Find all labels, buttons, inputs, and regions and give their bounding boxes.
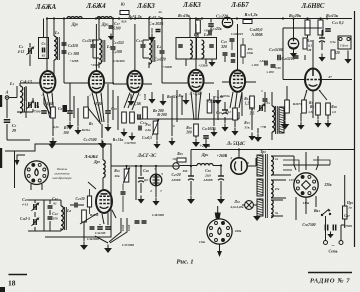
svg-text:Др1: Др1 xyxy=(71,22,79,27)
svg-text:С26120: С26120 xyxy=(154,58,165,62)
svg-text:включения: включения xyxy=(54,172,69,176)
svg-text:К7*1,2к: К7*1,2к xyxy=(147,15,162,20)
tube V1 xyxy=(40,71,55,93)
svg-text:Л26Ж4: Л26Ж4 xyxy=(85,3,106,10)
wire V7 left xyxy=(88,182,96,189)
IF can box L6 xyxy=(197,38,217,60)
svg-text:100к: 100к xyxy=(247,51,254,55)
wire stab drops xyxy=(135,166,137,200)
tube V2 xyxy=(89,71,104,93)
ground V2 xyxy=(101,140,103,144)
transformer T1 core xyxy=(276,106,278,134)
ground lamp xyxy=(256,213,258,217)
resistor R28 xyxy=(326,103,331,115)
svg-text:С461000: С461000 xyxy=(87,237,99,241)
svg-text:Панель: Панель xyxy=(56,167,68,171)
capacitor C49 electro xyxy=(188,175,194,177)
svg-text:Л36К3: Л36К3 xyxy=(136,3,155,10)
svg-text:С50: С50 xyxy=(205,169,211,173)
svg-text:Вк1: Вк1 xyxy=(313,209,320,213)
svg-text:С161000: С161000 xyxy=(113,59,125,63)
terminal mains left xyxy=(324,241,328,245)
tube V8 gas xyxy=(150,174,162,186)
wire V3 top xyxy=(134,24,136,71)
svg-text:А300В: А300В xyxy=(170,178,180,182)
coil L8 xyxy=(61,206,63,230)
coil L1 xyxy=(20,86,23,113)
svg-text:С6310: С6310 xyxy=(68,44,78,48)
page edge artifact left upper xyxy=(0,95,2,107)
wire mains verticals xyxy=(325,216,327,228)
pot R16 xyxy=(153,121,158,134)
svg-text:R1310к: R1310к xyxy=(178,13,191,18)
svg-text:В-200: В-200 xyxy=(156,113,167,117)
svg-text:127в: 127в xyxy=(289,178,296,182)
svg-text:+2,1В: +2,1В xyxy=(207,100,217,104)
svg-text:+7В: +7В xyxy=(260,125,267,129)
wire T1 xyxy=(271,92,273,106)
resistor R1 xyxy=(51,107,56,118)
ground mid d xyxy=(213,129,215,133)
svg-text:С44100: С44100 xyxy=(95,231,106,235)
ground V6a xyxy=(284,121,286,125)
capacitor C34 xyxy=(263,99,268,101)
svg-text:R2: R2 xyxy=(89,122,94,126)
capacitor C1 xyxy=(35,102,37,108)
ground row2 xyxy=(151,96,153,100)
svg-text:Су108: Су108 xyxy=(112,50,122,54)
svg-text:С4720: С4720 xyxy=(172,173,181,177)
ground T1 xyxy=(257,134,259,138)
ground C49 xyxy=(190,196,192,200)
svg-text:220в: 220в xyxy=(324,183,332,187)
svg-text:Тл: Тл xyxy=(266,101,270,105)
choke Dr1 xyxy=(67,17,82,19)
svg-text:Л9 5Ц4С: Л9 5Ц4С xyxy=(226,142,246,147)
svg-text:Л7: Л7 xyxy=(327,75,332,79)
svg-text:8,0: 8,0 xyxy=(144,178,148,182)
svg-text:20к: 20к xyxy=(113,174,119,178)
svg-text:91: 91 xyxy=(53,202,57,206)
wire V2 cathode xyxy=(101,124,103,138)
transformer T2 sec a xyxy=(271,156,273,175)
wire fan V6 xyxy=(304,90,307,100)
wire fan V4 xyxy=(191,92,194,121)
svg-text:С17: С17 xyxy=(114,21,120,26)
resistor R14 xyxy=(250,96,255,108)
resistor R12 xyxy=(233,108,238,120)
svg-text:х 200: х 200 xyxy=(251,63,259,67)
ground V6d xyxy=(327,120,329,124)
svg-text:Др2: Др2 xyxy=(101,22,109,27)
svg-text:Др3: Др3 xyxy=(93,160,101,164)
transformer T2 winding a xyxy=(257,155,263,176)
svg-text:С402-5: С402-5 xyxy=(20,217,30,221)
svg-text:R28: R28 xyxy=(331,105,337,109)
ground R16 xyxy=(156,141,158,145)
svg-text:С117500: С117500 xyxy=(84,138,97,142)
svg-text:L4: L4 xyxy=(156,44,162,49)
wire fan V7 xyxy=(80,213,98,224)
wire selector bottom xyxy=(305,197,307,214)
ground V6c xyxy=(317,120,319,124)
svg-text:Т/фон: Т/фон xyxy=(340,44,349,48)
tube V3 xyxy=(127,71,142,93)
svg-text:С20: С20 xyxy=(22,197,28,202)
svg-text:Л76Ж4: Л76Ж4 xyxy=(83,154,98,159)
capacitor C12 xyxy=(91,45,96,47)
svg-text:300: 300 xyxy=(182,169,188,173)
svg-text:1,5к: 1,5к xyxy=(308,110,314,114)
svg-text:Л16ЖА: Л16ЖА xyxy=(35,4,57,11)
svg-text:Рис. 1: Рис. 1 xyxy=(176,259,193,266)
resistor R4 xyxy=(122,112,127,123)
wire mid vert b xyxy=(112,90,114,120)
svg-text:R25: R25 xyxy=(177,152,183,156)
capacitor in L6 can xyxy=(209,45,214,47)
ground V5 xyxy=(234,128,236,132)
ground L6 xyxy=(211,59,213,63)
wire fan V5 xyxy=(230,92,233,108)
resistor R10b xyxy=(207,100,212,113)
svg-text:К5: К5 xyxy=(120,2,126,7)
capacitor C41 xyxy=(48,206,53,208)
wire tank3-V3 xyxy=(113,83,128,85)
svg-text:18: 18 xyxy=(8,279,16,288)
svg-text:С481000: С481000 xyxy=(152,213,164,217)
svg-text:~: ~ xyxy=(332,244,335,249)
wire socket cross xyxy=(196,210,205,227)
svg-text:+230В: +230В xyxy=(198,64,208,68)
svg-text:1а: 1а xyxy=(348,206,352,210)
wire fuse up xyxy=(344,175,346,199)
svg-text:С23: С23 xyxy=(221,39,227,44)
tube V5 xyxy=(230,70,245,92)
svg-text:0,1: 0,1 xyxy=(308,44,313,48)
svg-text:+240В: +240В xyxy=(200,144,211,148)
svg-text:Др4: Др4 xyxy=(201,152,209,157)
wire tank3 xyxy=(161,19,163,51)
svg-text:С255100: С255100 xyxy=(269,47,283,52)
svg-text:1000: 1000 xyxy=(121,224,125,231)
wire C3 down xyxy=(6,124,8,140)
svg-text:Пр1: Пр1 xyxy=(346,201,354,205)
capacitor row small xyxy=(265,61,267,66)
ground top mid xyxy=(151,34,153,38)
ground mains xyxy=(330,232,332,235)
resistor R22b xyxy=(82,210,87,222)
svg-text:1000: 1000 xyxy=(143,93,147,100)
svg-text:1,2: 1,2 xyxy=(245,102,250,106)
svg-text:+100В: +100В xyxy=(162,65,172,69)
svg-text:С2820,0: С2820,0 xyxy=(250,27,263,32)
svg-text:1,5в: 1,5в xyxy=(259,59,265,63)
svg-text:С220,025: С220,025 xyxy=(231,32,243,36)
trimmer C2 xyxy=(29,102,31,108)
wire V9 right xyxy=(247,165,256,167)
wire V1 plate drop xyxy=(46,19,48,72)
ground V4 xyxy=(195,139,197,143)
wire tank1 xyxy=(63,40,65,58)
svg-text:С18 2025: С18 2025 xyxy=(149,21,164,26)
svg-text:29: 29 xyxy=(11,128,16,133)
svg-text:SМ: SМ xyxy=(307,48,312,52)
svg-text:С220,5: С220,5 xyxy=(142,136,152,140)
ground C50 xyxy=(220,196,222,200)
capacitor C3 xyxy=(4,120,11,123)
outlet symbol xyxy=(173,163,179,169)
svg-text:4-13: 4-13 xyxy=(17,50,25,54)
resistor R8 xyxy=(143,107,148,119)
wire V5 sides xyxy=(222,81,230,83)
svg-text:R1651к: R1651к xyxy=(220,94,230,98)
svg-text:R10: R10 xyxy=(186,126,192,130)
ground V1 xyxy=(52,138,54,142)
wire grid line V6 xyxy=(283,79,306,81)
wire cal bottom xyxy=(99,224,101,225)
capacitor C35 electro xyxy=(222,109,228,111)
ground cal top1 xyxy=(51,141,53,144)
ground V4b xyxy=(205,141,207,145)
svg-text:С567500: С567500 xyxy=(302,223,315,227)
wire bus to L2 xyxy=(53,19,55,37)
transformer T2 core xyxy=(266,154,268,218)
svg-text:100: 100 xyxy=(63,131,69,135)
svg-text:Л8СГ-3С: Л8СГ-3С xyxy=(137,154,157,159)
svg-text:R14: R14 xyxy=(244,97,250,101)
wire mid vert d xyxy=(213,96,215,126)
socket bottom connector xyxy=(207,219,232,244)
svg-text:2: 2 xyxy=(149,189,152,193)
resistor R26 xyxy=(285,100,290,113)
svg-text:Л46К3: Л46К3 xyxy=(182,2,201,9)
resistor R27 xyxy=(302,100,307,113)
choke Dr4 xyxy=(197,164,213,166)
svg-text:Л66Н8С: Л66Н8С xyxy=(301,3,325,10)
ground V5b xyxy=(224,124,226,128)
svg-text:4: 4 xyxy=(229,156,232,160)
wire V2 top xyxy=(95,24,97,71)
ground cal1 xyxy=(83,242,85,246)
wire mid vert a xyxy=(73,96,75,118)
socket calibrator xyxy=(25,161,49,185)
svg-text:7500: 7500 xyxy=(34,110,41,114)
svg-text:б2А: б2А xyxy=(121,20,126,24)
svg-text:Л10: Л10 xyxy=(233,199,240,204)
svg-text:С4330: С4330 xyxy=(76,197,85,201)
tube small diode cap xyxy=(222,17,232,27)
wire avc bus xyxy=(138,118,239,120)
ground mid c xyxy=(171,138,173,142)
svg-text:20,0: 20,0 xyxy=(204,174,211,178)
wire 6n8s top xyxy=(293,19,295,39)
wire antenna xyxy=(9,97,17,99)
wire R21 to V6 xyxy=(307,35,309,38)
transformer T2 sec b xyxy=(271,180,273,198)
tube V7 xyxy=(96,190,112,213)
coil L5 xyxy=(190,40,192,58)
svg-text:С9: С9 xyxy=(58,107,63,111)
wire socket top tag xyxy=(215,213,221,219)
ground row3 xyxy=(162,98,164,102)
IF can box L5 xyxy=(176,38,196,60)
wire grid V1 xyxy=(16,86,18,98)
wire mid vert c xyxy=(171,96,173,136)
svg-text:А: А xyxy=(5,90,9,95)
wire bus to L3 xyxy=(98,19,100,40)
wire V6 top xyxy=(312,40,314,69)
journal rule xyxy=(308,272,352,274)
svg-text:С15353: С15353 xyxy=(112,41,123,45)
svg-text:С30: С30 xyxy=(275,66,281,70)
capacitor C13 xyxy=(138,114,140,120)
svg-text:С57: С57 xyxy=(344,214,350,218)
coil L6 xyxy=(202,40,204,58)
svg-text:А300В: А300В xyxy=(202,178,212,182)
transformer T2 winding b xyxy=(257,179,263,196)
ground phones xyxy=(347,56,349,60)
wire stab rail xyxy=(111,165,180,167)
svg-text:82: 82 xyxy=(42,54,46,58)
capacitor C14 xyxy=(141,45,146,47)
capacitor C45 right of V7 xyxy=(121,192,126,194)
trimmer C4 xyxy=(29,48,31,54)
wire fan V2 xyxy=(92,93,100,123)
svg-text:Р16: Р16 xyxy=(145,123,151,127)
svg-text:R171,2в: R171,2в xyxy=(245,12,258,17)
trimmer C20 xyxy=(34,204,36,210)
calibrator enclosure xyxy=(15,144,112,237)
socket voltage selector xyxy=(294,173,318,197)
svg-text:R19: R19 xyxy=(114,169,120,173)
svg-text:С48: С48 xyxy=(143,169,149,173)
wire tank1-V1 xyxy=(33,82,40,84)
page edge artifact bottom left xyxy=(0,287,5,292)
svg-text:R9: R9 xyxy=(310,105,314,109)
svg-text:С24 0,1: С24 0,1 xyxy=(332,20,344,25)
phones jack xyxy=(338,36,351,49)
svg-text:L6: L6 xyxy=(203,32,209,37)
transformer T1 primary xyxy=(272,106,275,132)
transformer T2 winding c xyxy=(257,199,263,216)
ground C9 xyxy=(69,122,71,126)
svg-text:С7 108: С7 108 xyxy=(68,52,79,56)
svg-text:220в: 220в xyxy=(234,229,242,233)
ground row1 xyxy=(130,98,132,102)
svg-text:10: 10 xyxy=(172,124,176,128)
ground V6b xyxy=(300,122,302,126)
svg-text:А 300В: А 300В xyxy=(250,33,263,37)
wire fan V1 xyxy=(43,93,50,119)
terminal mains right xyxy=(339,241,343,245)
wire box top left xyxy=(5,150,35,152)
wire tank4-V4 xyxy=(162,82,189,84)
wire V2 plate xyxy=(95,19,97,72)
svg-text:С10: С10 xyxy=(111,107,117,111)
page edge artifact left mid xyxy=(0,148,2,168)
svg-text:R3 51к: R3 51к xyxy=(113,138,124,142)
wire fan V3 xyxy=(124,93,130,109)
svg-text:Тр2: Тр2 xyxy=(260,149,266,154)
svg-text:С12310: С12310 xyxy=(82,39,93,43)
tube V4 xyxy=(188,70,203,92)
transformer T1 secondary xyxy=(279,107,284,133)
capacitor C45 xyxy=(97,227,103,229)
svg-text:Сеть: Сеть xyxy=(329,250,338,254)
svg-text:С127500: С127500 xyxy=(124,141,136,145)
svg-text:1,0: 1,0 xyxy=(332,110,336,114)
ground cal top2 xyxy=(102,141,104,144)
wire V4 top xyxy=(195,24,197,70)
svg-text:+230В: +230В xyxy=(91,63,100,67)
svg-text:L8: L8 xyxy=(66,208,72,213)
wire V5 top xyxy=(237,24,239,70)
frame right border xyxy=(354,11,356,247)
junction dots bus xyxy=(46,17,48,19)
resistor R9 xyxy=(316,103,321,115)
resistor R23 xyxy=(303,38,307,49)
svg-text:R451к: R451к xyxy=(82,128,91,132)
shield box C5 xyxy=(43,19,45,38)
svg-text:R15: R15 xyxy=(244,121,250,125)
svg-text:С5: С5 xyxy=(41,42,46,46)
svg-text:51к: 51к xyxy=(244,126,249,130)
wire cal osc xyxy=(28,199,61,201)
wire V1 cathode xyxy=(52,118,54,136)
wire bus to L4 xyxy=(148,19,150,40)
svg-text:7,5в: 7,5в xyxy=(330,40,336,44)
lamp symbol xyxy=(245,201,254,210)
svg-text:150: 150 xyxy=(52,217,57,221)
ground row5 xyxy=(217,97,219,101)
svg-text:х 200: х 200 xyxy=(265,70,274,74)
svg-text:калибратора: калибратора xyxy=(52,176,71,180)
resistor R2 xyxy=(84,107,89,118)
svg-text:5100: 5100 xyxy=(113,27,120,31)
coil L2 xyxy=(54,36,56,60)
tube V9 rectifier xyxy=(231,158,247,174)
tube metal diode xyxy=(288,38,298,48)
svg-text:R11: R11 xyxy=(178,94,184,98)
wire selector top xyxy=(294,156,296,170)
svg-text:47в: 47в xyxy=(274,187,280,191)
ground C10 xyxy=(107,124,109,128)
wire tank2 xyxy=(112,19,114,47)
wire +240 rail xyxy=(191,149,355,151)
svg-text:С35: С35 xyxy=(216,111,222,115)
arrow input xyxy=(17,155,25,160)
wire rail drop V9 xyxy=(238,150,240,158)
wire B+ bus xyxy=(47,18,352,20)
svg-text:320: 320 xyxy=(220,45,227,49)
ground mid1 xyxy=(77,127,79,131)
ground V8 xyxy=(155,198,157,202)
svg-text:С42: С42 xyxy=(52,212,58,216)
svg-text:+260В: +260В xyxy=(217,154,228,158)
choke Dr2 xyxy=(97,17,112,19)
ground row4 xyxy=(185,97,187,101)
transformer T2 sec c xyxy=(271,200,273,218)
coil L4 xyxy=(149,39,152,64)
svg-text:R2120к: R2120к xyxy=(289,13,302,18)
capacitor C29 xyxy=(319,37,325,39)
svg-text:1000: 1000 xyxy=(127,224,131,231)
svg-text:2,3к: 2,3к xyxy=(144,128,151,132)
wire bus to L5 xyxy=(189,19,191,38)
ground V3a xyxy=(123,129,125,133)
svg-text:С8: С8 xyxy=(35,104,40,109)
wire socket stem xyxy=(219,244,221,251)
